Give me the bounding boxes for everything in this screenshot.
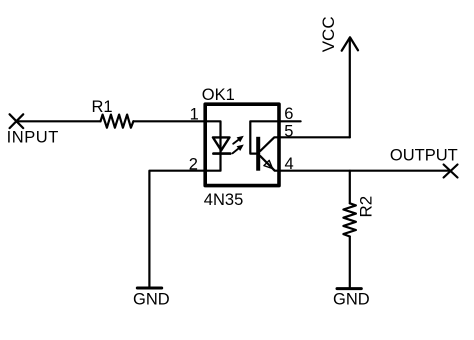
svg-text:4: 4 xyxy=(285,155,294,173)
svg-text:INPUT: INPUT xyxy=(7,128,59,146)
svg-text:VCC: VCC xyxy=(319,16,338,52)
svg-text:OUTPUT: OUTPUT xyxy=(390,146,458,164)
svg-text:R1: R1 xyxy=(92,98,113,116)
svg-text:GND: GND xyxy=(333,291,370,309)
svg-text:4N35: 4N35 xyxy=(204,191,243,209)
svg-text:R2: R2 xyxy=(357,196,376,218)
svg-text:2: 2 xyxy=(189,156,198,174)
svg-text:1: 1 xyxy=(190,106,199,124)
svg-text:GND: GND xyxy=(133,290,170,308)
svg-text:6: 6 xyxy=(284,105,293,123)
svg-text:5: 5 xyxy=(284,122,293,140)
svg-text:OK1: OK1 xyxy=(202,86,235,104)
